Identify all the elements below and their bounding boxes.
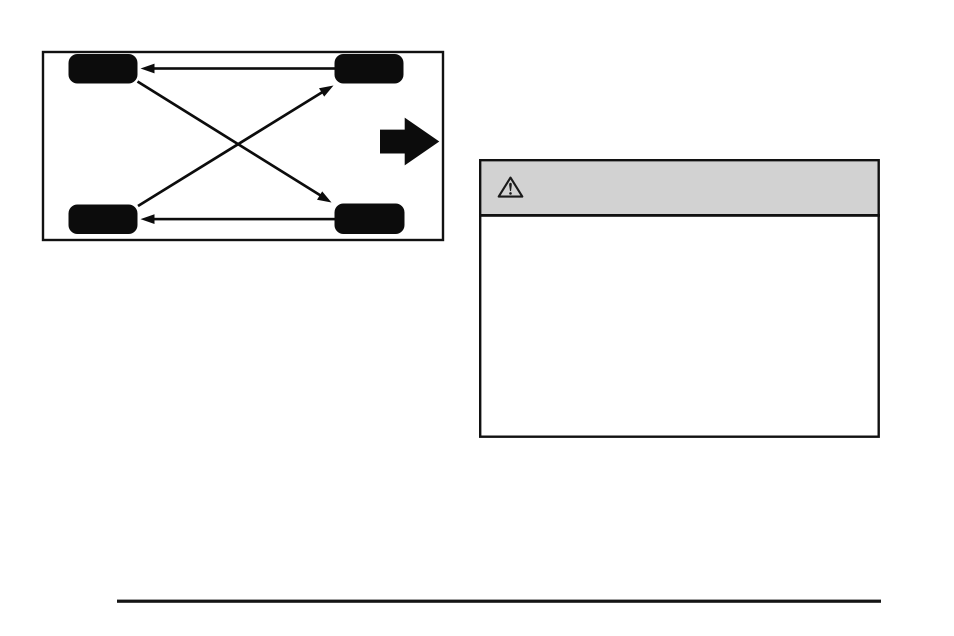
notice box header band bbox=[482, 162, 878, 215]
tire front-left bbox=[69, 54, 138, 84]
rotation arrow top: front-right to front-left bbox=[141, 64, 338, 74]
rotation arrow diagonal: front-left down to rear-right bbox=[138, 82, 332, 203]
caution triangle icon bbox=[499, 178, 523, 197]
tire rear-right bbox=[335, 204, 405, 235]
rotation arrow bottom: rear-right to rear-left bbox=[141, 214, 338, 224]
notice box header separator bbox=[479, 214, 880, 217]
rotation arrow diagonal: rear-left up to front-right bbox=[138, 86, 334, 207]
notice box bbox=[480, 160, 879, 437]
tire rear-left bbox=[69, 205, 138, 235]
vehicle forward direction arrow bbox=[380, 118, 439, 166]
tire rotation diagram outer box bbox=[43, 52, 443, 240]
tire front-right bbox=[335, 54, 404, 84]
footer rule bbox=[117, 600, 881, 603]
